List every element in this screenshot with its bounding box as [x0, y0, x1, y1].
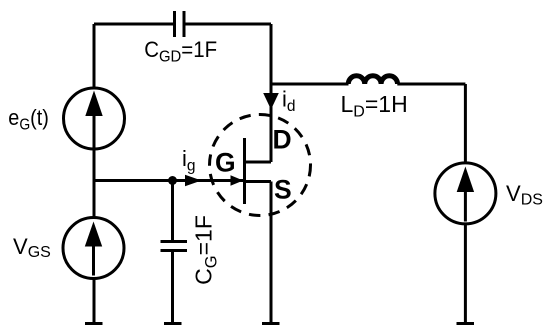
terminal tick C_G [164, 322, 182, 325]
svg-text:G: G [215, 148, 236, 178]
svg-text:LD=1H: LD=1H [341, 91, 408, 121]
svg-text:S: S [274, 175, 292, 205]
wire left vertical mid [93, 149, 96, 218]
wire right vertical bottom [464, 224, 467, 324]
arrow of V_GS source [92, 243, 95, 276]
wire top right horizontal to inductor [271, 83, 349, 86]
svg-text:CG=1F: CG=1F [191, 215, 221, 285]
svg-text:CGD=1F: CGD=1F [144, 37, 217, 65]
source e_G(t) circle [64, 88, 125, 149]
wire C_G branch upper [171, 181, 174, 242]
wire C_G branch lower [171, 251, 174, 324]
arrow of e_G source [93, 112, 96, 149]
transistor channel bar [243, 138, 246, 204]
wire left vertical bottom [93, 279, 96, 324]
source V_DS circle [435, 163, 496, 224]
wire gate horizontal [94, 179, 243, 182]
arrow of V_DS source [464, 188, 467, 222]
inductor L_D coils [348, 76, 397, 84]
current arrow i_d [263, 93, 279, 110]
terminal tick source [262, 322, 280, 325]
wire right vertical top [464, 84, 467, 163]
wire drain vertical [270, 24, 273, 162]
capacitor C_GD plates [173, 11, 176, 37]
node junction dot gate [168, 176, 177, 185]
wire left vertical top [93, 24, 96, 88]
wire source vertical [270, 182, 273, 324]
terminal tick left [85, 322, 103, 325]
wire top horizontal left of C_GD [94, 23, 173, 26]
capacitor C_G plates [161, 240, 188, 243]
wire top horizontal right of C_GD [186, 23, 272, 26]
svg-text:D: D [273, 125, 292, 155]
gate arrowhead [231, 175, 244, 186]
current arrow i_g [185, 175, 202, 187]
transistor dashed circle [210, 115, 311, 216]
drain lead horizontal [245, 161, 272, 164]
terminal tick right [457, 322, 475, 325]
source V_GS circle [63, 218, 124, 279]
source lead horizontal [245, 180, 272, 183]
wire inductor to right [397, 83, 465, 86]
